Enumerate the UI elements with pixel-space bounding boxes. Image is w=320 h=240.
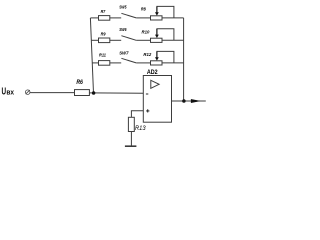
- wire row1 to pot: [136, 17, 150, 19]
- svg-text:R10: R10: [142, 30, 150, 35]
- wire row3 left: [92, 62, 98, 64]
- op-amp inverting input minus sign: [146, 93, 148, 95]
- op-amp U1 AD2 body: [143, 76, 171, 123]
- svg-text:SW5: SW5: [119, 4, 127, 9]
- wire row1 right: [162, 17, 184, 19]
- junction dot at output / bus: [182, 99, 186, 103]
- wire row2 mid: [110, 39, 121, 41]
- svg-text:SW6: SW6: [119, 27, 127, 32]
- input terminal circle: [25, 90, 30, 95]
- svg-text:R7: R7: [101, 9, 106, 14]
- wire R6 to op-amp: [89, 92, 143, 94]
- node: right bus (output net): [183, 18, 185, 101]
- switch SW5 lever: [121, 13, 136, 18]
- switch SW6 lever: [121, 36, 136, 41]
- wire row2 left: [91, 39, 98, 41]
- wire row2 right: [162, 39, 184, 41]
- wire row3 right: [162, 62, 184, 64]
- potentiometer R12 wiper arrowhead: [155, 57, 159, 60]
- resistor R6: [75, 90, 90, 96]
- wire row3 to pot: [136, 62, 150, 64]
- svg-text:вх: вх: [6, 89, 14, 96]
- ground: [125, 145, 136, 147]
- potentiometer R8 wiper loop wire: [157, 6, 174, 18]
- svg-text:R12: R12: [143, 52, 151, 57]
- svg-text:R6: R6: [76, 79, 83, 86]
- wire row1 left: [90, 17, 98, 19]
- wire input rail: [30, 92, 75, 94]
- svg-text:AD2: AD2: [147, 69, 158, 76]
- output direction arrow: [191, 99, 199, 102]
- wire R13 to ground: [130, 132, 132, 146]
- potentiometer R12 wiper loop wire: [157, 51, 174, 63]
- svg-text:R9: R9: [101, 32, 106, 37]
- potentiometer R10 wiper loop wire: [157, 29, 174, 41]
- resistor R11: [99, 61, 110, 66]
- junction dot at R6 / bus: [92, 91, 96, 95]
- resistor R9: [99, 38, 110, 43]
- svg-text:R8: R8: [141, 6, 146, 11]
- op-amp non-inverting input plus sign: [146, 109, 149, 112]
- wire row1 mid: [110, 17, 121, 19]
- potentiometer R8 wiper arrowhead: [155, 12, 159, 15]
- resistor R7: [99, 16, 110, 21]
- potentiometer R12 body: [151, 61, 163, 65]
- switch SW7 lever: [121, 58, 136, 63]
- resistor R13: [128, 117, 134, 131]
- svg-text:SW7: SW7: [119, 50, 129, 55]
- svg-text:R11: R11: [99, 52, 106, 57]
- potentiometer R10 wiper arrowhead: [155, 35, 159, 38]
- wire row2 to pot: [136, 39, 150, 41]
- potentiometer R8 body: [151, 16, 163, 20]
- svg-text:R13: R13: [135, 125, 146, 132]
- wire output: [172, 100, 206, 102]
- wire non-inverting input: [131, 111, 143, 118]
- potentiometer R10 body: [151, 38, 163, 42]
- node: left bus (inverting input net): [90, 18, 93, 93]
- input terminal slash: [26, 90, 30, 94]
- wire row3 mid: [110, 62, 121, 64]
- op-amp triangle symbol: [151, 80, 159, 88]
